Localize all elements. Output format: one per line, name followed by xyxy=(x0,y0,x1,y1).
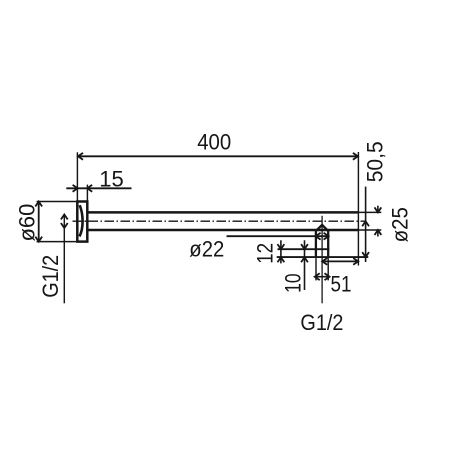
svg-text:ø60: ø60 xyxy=(14,204,39,242)
svg-text:ø22: ø22 xyxy=(189,236,224,261)
svg-text:10: 10 xyxy=(281,273,306,293)
svg-text:12: 12 xyxy=(252,243,277,264)
svg-text:400: 400 xyxy=(197,129,231,154)
svg-text:G1/2: G1/2 xyxy=(38,255,63,298)
svg-text:50,5: 50,5 xyxy=(362,141,387,182)
svg-text:51: 51 xyxy=(331,272,352,297)
svg-text:15: 15 xyxy=(99,167,123,192)
svg-text:G1/2: G1/2 xyxy=(300,310,343,335)
svg-text:ø25: ø25 xyxy=(388,207,413,242)
